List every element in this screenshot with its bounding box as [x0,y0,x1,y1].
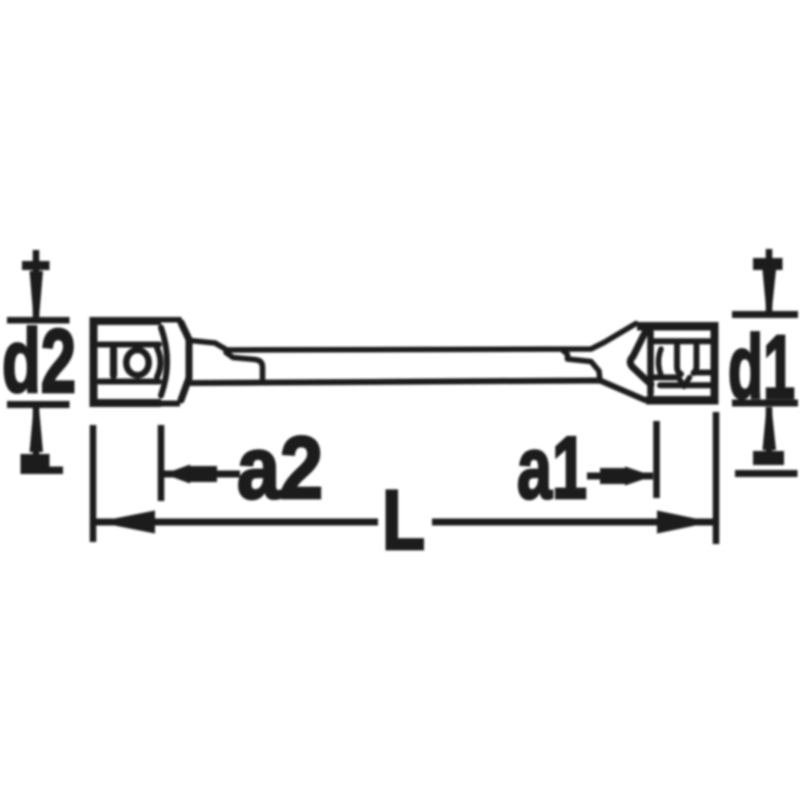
svg-text:L: L [382,473,425,567]
svg-text:a2: a2 [237,418,323,517]
svg-text:a1: a1 [517,418,587,517]
svg-text:d1: d1 [728,318,795,418]
svg-text:d2: d2 [2,312,76,412]
